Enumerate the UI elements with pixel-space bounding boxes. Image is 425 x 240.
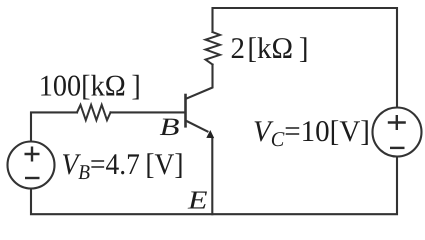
minus sign of VB xyxy=(25,177,40,179)
resistor R2 2[kΩ] vertical zigzag xyxy=(206,32,221,65)
voltage source VC circle xyxy=(373,108,422,157)
voltage source VB circle xyxy=(8,142,55,189)
transistor Q1 emitter arrowhead xyxy=(206,130,214,138)
wire emitter diagonal xyxy=(187,121,208,132)
svg-text:VC=10[V]: VC=10[V] xyxy=(253,115,370,151)
wire bottom rail xyxy=(31,157,397,215)
wire top rail with corners xyxy=(213,8,398,108)
wire VB top lead and corner to resistor xyxy=(31,112,77,141)
minus sign of VC xyxy=(390,147,405,149)
plus sign of VB xyxy=(25,147,40,162)
svg-text:B: B xyxy=(160,114,180,141)
plus sign of VC xyxy=(388,115,406,130)
svg-text:100[kΩ ]: 100[kΩ ] xyxy=(39,69,141,102)
svg-text:E: E xyxy=(187,186,208,215)
svg-text:2 [kΩ ]: 2 [kΩ ] xyxy=(231,32,309,65)
resistor R1 100[kΩ] horizontal zigzag xyxy=(77,105,111,120)
wire collector lead xyxy=(187,65,213,99)
wire emitter vertical xyxy=(211,138,213,214)
transistor Q1 base bar xyxy=(184,95,187,126)
wire base lead xyxy=(111,111,185,113)
